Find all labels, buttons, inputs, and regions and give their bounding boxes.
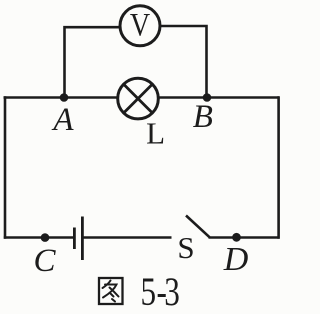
caption: hand-drawn CJK character 图	[99, 278, 123, 304]
wire: main horizontal, left edge to lamp	[4, 96, 119, 99]
wire: switch to bottom right corner	[209, 236, 280, 239]
switch S (open arm)	[186, 216, 210, 238]
node C	[41, 233, 50, 242]
wire: main horizontal, lamp to right edge	[158, 96, 279, 99]
lamp L	[118, 78, 159, 119]
caption: figure number 5-3	[141, 269, 180, 314]
label D	[223, 241, 249, 278]
node B	[203, 93, 212, 102]
svg-text:D: D	[223, 241, 249, 278]
wire: right side vertical	[277, 96, 280, 239]
wire from node A up and right to voltmeter	[65, 27, 121, 99]
svg-text:S: S	[177, 230, 194, 265]
wire: battery to switch	[82, 236, 171, 239]
svg-text:3: 3	[164, 269, 180, 314]
wire from voltmeter right and down to node B	[160, 26, 206, 99]
battery	[74, 217, 82, 261]
svg-text:B: B	[193, 99, 213, 135]
label B	[193, 99, 213, 135]
svg-text:C: C	[33, 243, 56, 279]
svg-text:5: 5	[141, 269, 157, 314]
voltmeter V	[120, 6, 160, 46]
wire: bottom left corner to battery	[4, 236, 73, 239]
label S	[177, 230, 194, 265]
wire: left side vertical	[4, 96, 7, 239]
node D	[232, 233, 241, 242]
svg-text:V: V	[130, 6, 150, 43]
label L	[146, 116, 165, 151]
svg-text:A: A	[51, 102, 74, 138]
label A	[51, 102, 74, 138]
svg-text:L: L	[146, 116, 165, 151]
node A	[60, 93, 69, 102]
label C	[33, 243, 56, 279]
